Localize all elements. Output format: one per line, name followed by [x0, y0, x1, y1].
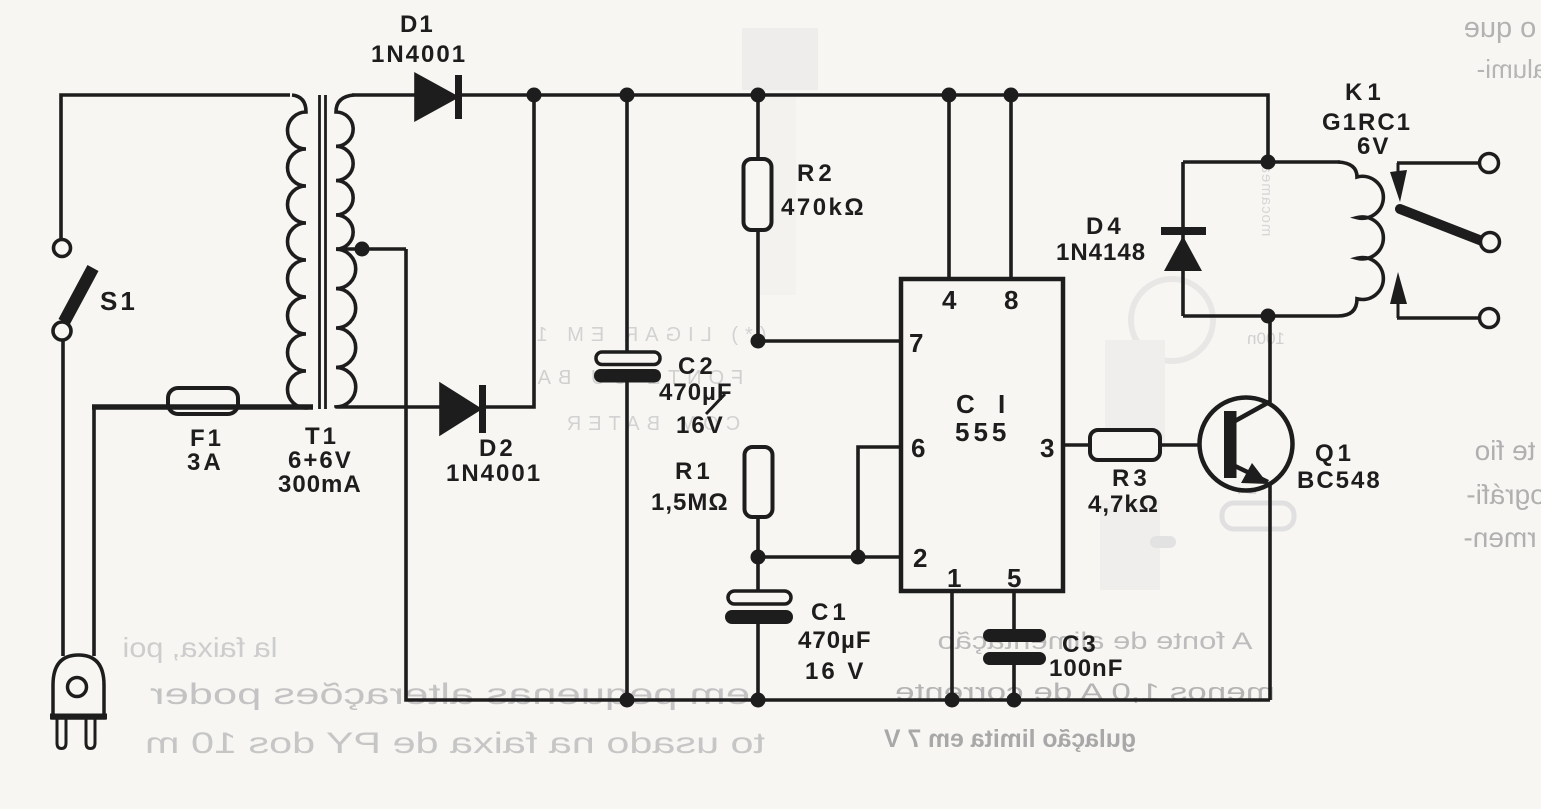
svg-text:R1: R1 [675, 458, 714, 485]
svg-text:6: 6 [911, 433, 925, 463]
svg-text:C2: C2 [678, 353, 717, 380]
wire: D2 cathode up to top rail [486, 95, 534, 407]
svg-text:R3: R3 [1112, 465, 1151, 492]
svg-text:S1: S1 [100, 286, 138, 316]
svg-text:rmen-: rmen- [1463, 522, 1536, 553]
svg-text:7: 7 [909, 328, 923, 358]
svg-text:BC548: BC548 [1297, 467, 1382, 494]
svg-text:D2: D2 [479, 435, 516, 462]
IC CI 555 [901, 279, 1063, 593]
svg-text:C1: C1 [811, 599, 850, 626]
svg-text:470kΩ: 470kΩ [781, 194, 866, 221]
svg-text:(*) LIGAR EM 1: (*) LIGAR EM 1 [530, 324, 767, 346]
wire: pin 1 to ground rail [950, 591, 954, 700]
svg-text:16 V: 16 V [805, 658, 866, 685]
svg-text:la faixa, poi: la faixa, poi [122, 632, 277, 663]
wire: top rail from D1 to relay corner [462, 95, 1268, 162]
svg-text:16V: 16V [676, 412, 725, 439]
wire: pin 3 to R3 [1063, 443, 1090, 447]
svg-text:to usado na faixa de PY dos 10: to usado na faixa de PY dos 10 m [145, 727, 765, 760]
T1 primary winding [288, 95, 307, 408]
svg-text:3: 3 [1040, 433, 1054, 463]
wire: pin 4 to top rail [947, 95, 951, 279]
svg-text:Q1: Q1 [1315, 440, 1355, 467]
transformer T1 [278, 95, 362, 498]
junction: R1 bottom node [751, 550, 766, 565]
svg-text:T1: T1 [305, 423, 339, 450]
capacitor C1 470uF [725, 557, 872, 700]
transistor Q1 BC548 [1200, 398, 1382, 495]
resistor R3 4.7k [1088, 430, 1225, 518]
wire: collector up to relay bottom node [1268, 316, 1272, 402]
svg-text:4: 4 [942, 285, 957, 315]
svg-text:ográfi-: ográfi- [1466, 479, 1541, 510]
fuse F1 [92, 388, 313, 476]
wire: secondary top to D1 anode [352, 93, 416, 97]
wire: node to pin 7 [758, 339, 901, 343]
svg-text:C I: C I [956, 389, 1013, 419]
wire: switch to plug left prong [61, 340, 65, 656]
capacitor C3 100nF [983, 629, 1123, 700]
contact: movable blade [1400, 209, 1482, 241]
svg-text:6+6V: 6+6V [288, 447, 353, 474]
svg-text:mocamea: mocamea [1258, 164, 1275, 237]
svg-text:6V: 6V [1357, 133, 1390, 160]
resistor R2 470k [744, 95, 867, 341]
svg-text:D1: D1 [400, 11, 435, 38]
switch S1 [53, 240, 138, 341]
svg-text:5: 5 [1007, 563, 1021, 593]
ground rail (bottom) from center tap down and across [406, 249, 1270, 700]
diode D4 1N4148 [1056, 162, 1206, 316]
svg-text:1N4148: 1N4148 [1056, 239, 1146, 266]
junction dots on ground rail [620, 693, 1022, 708]
svg-text:G1RC1: G1RC1 [1322, 109, 1412, 136]
svg-text:em pequenas alterações poder: em pequenas alterações poder [150, 678, 750, 711]
svg-text:gulação limita em 7 V: gulação limita em 7 V [884, 725, 1136, 753]
junction: relay coil top node [1261, 155, 1276, 170]
wire: emitter down to ground rail [1268, 482, 1272, 700]
diode D1 1N4001 [371, 11, 467, 119]
resistor R1 1.5M [651, 447, 773, 557]
T1 core [320, 95, 326, 409]
svg-text:8: 8 [1004, 285, 1018, 315]
svg-text:1: 1 [947, 563, 961, 593]
relay K1 contacts [1390, 154, 1500, 328]
svg-text:R2: R2 [797, 160, 836, 187]
svg-text:F1: F1 [190, 425, 224, 452]
svg-text:555: 555 [955, 417, 1010, 447]
svg-text:1N4001: 1N4001 [371, 41, 467, 68]
svg-text:C3: C3 [1062, 631, 1099, 658]
diode D2 1N4001 [441, 385, 542, 487]
wire: branch up to pin 6 [858, 447, 901, 557]
svg-text:300mA: 300mA [278, 471, 362, 498]
svg-text:470µF: 470µF [659, 379, 733, 406]
capacitor C2 470uF [594, 95, 733, 700]
junction: pin6 branch node [851, 550, 866, 565]
AC plug [50, 655, 107, 749]
svg-text:1,5MΩ: 1,5MΩ [651, 489, 729, 516]
wire: node to pin 2 [758, 555, 901, 559]
svg-text:100nF: 100nF [1049, 655, 1123, 682]
svg-text:1N4001: 1N4001 [446, 460, 542, 487]
wire: pin 5 to C3 [1012, 591, 1016, 630]
svg-text:te fio: te fio [1475, 435, 1536, 466]
wire: secondary center tap [336, 247, 406, 251]
wire: pin 8 to top rail [1009, 95, 1013, 279]
wire: secondary bottom to D2 anode [352, 405, 441, 409]
svg-text:alumi-: alumi- [1477, 54, 1541, 84]
svg-text:o que: o que [1464, 12, 1537, 44]
wire: top rail left segment with corner to switch [61, 95, 290, 239]
svg-text:4,7kΩ: 4,7kΩ [1088, 491, 1159, 518]
svg-text:D4: D4 [1086, 213, 1125, 240]
svg-text:470µF: 470µF [798, 627, 872, 654]
contact: NC terminal top [1397, 161, 1479, 165]
relay K1 coil [1183, 79, 1412, 316]
wire: plug right prong up to fuse line [92, 405, 96, 656]
svg-text:3A: 3A [187, 449, 224, 476]
junction: R2/R1/pin7 node [751, 334, 766, 349]
svg-text:100n: 100n [1247, 329, 1285, 348]
junction: relay coil bottom node [1261, 309, 1276, 324]
junction: center tap dot [355, 242, 370, 257]
svg-text:K1: K1 [1345, 79, 1386, 106]
junction dots on top rail [527, 88, 1019, 103]
contact: NO terminal bottom [1397, 316, 1479, 320]
svg-text:2: 2 [913, 543, 927, 573]
T1 secondary winding [336, 95, 356, 407]
